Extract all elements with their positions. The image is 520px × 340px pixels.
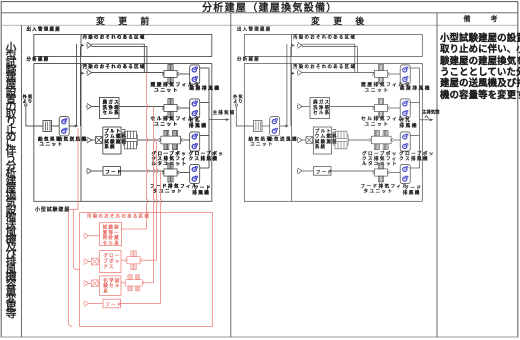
small test building box (red) bbox=[80, 213, 213, 327]
red riser B up to row 3 bbox=[156, 140, 158, 260]
red branch at 209.5 bbox=[69, 209, 78, 211]
chevron row1 bbox=[87, 70, 92, 76]
red filter unit row B bbox=[125, 251, 142, 270]
building box 2 (analysis building) bbox=[34, 64, 212, 202]
box: hood フード bbox=[103, 167, 121, 176]
filter unit: glove box exhaust (double) bbox=[159, 131, 183, 150]
svg-text:セル系: セル系 bbox=[103, 240, 120, 246]
row D: hood (red) bbox=[84, 301, 89, 307]
fan: hood exhaust bbox=[190, 164, 200, 183]
fan: cell exhaust bbox=[190, 99, 200, 118]
building box 1 (entry control) bbox=[34, 34, 212, 56]
arrow: supply into box1 bbox=[81, 44, 85, 47]
svg-text:分析建屋（建屋換気設備）: 分析建屋（建屋換気設備） bbox=[202, 1, 338, 14]
row B: glove box bbox=[84, 259, 89, 265]
wire: box1 exhaust duct pair to row 1 bbox=[92, 44, 147, 72]
svg-text:変更後: 変更後 bbox=[311, 15, 378, 26]
row A: test equipment temporary storage cell bbox=[84, 233, 89, 239]
wire bbox=[179, 73, 190, 75]
box: waste gas scrubber cell system bbox=[100, 98, 120, 119]
red supply line B curving into box bbox=[73, 210, 79, 270]
wire: outside air to supply filter bbox=[26, 106, 43, 126]
title row line bbox=[1, 12, 518, 14]
svg-text:へ: へ bbox=[425, 115, 430, 120]
red supply line A down left side, curving into bottom bbox=[69, 210, 73, 327]
svg-text:変更前: 変更前 bbox=[96, 15, 163, 26]
wire row A to riser bbox=[122, 228, 147, 230]
arrow: supply into box2 bbox=[81, 72, 85, 75]
bottom table line bbox=[1, 336, 518, 338]
svg-text:主排気筒: 主排気筒 bbox=[213, 109, 236, 116]
red riser A up to row 1 bbox=[147, 73, 149, 229]
svg-text:等: 等 bbox=[6, 306, 17, 320]
supply riser duct pair bbox=[76, 44, 80, 126]
filter unit: hood exhaust bbox=[162, 163, 179, 182]
contamination area partition line in box 2 bbox=[80, 64, 82, 202]
contamination area partition line in box 1 bbox=[80, 34, 82, 56]
node: outside air inlet bbox=[25, 104, 27, 106]
exhaust collector line bbox=[208, 68, 210, 168]
supply air filter box bbox=[43, 121, 52, 132]
mini filter pair bbox=[123, 131, 137, 149]
column divider: remarks bbox=[436, 13, 438, 337]
red double filter unit row C bbox=[124, 275, 144, 291]
red riser C up to row 2 bbox=[153, 107, 155, 283]
red riser D up to row 4 bbox=[160, 171, 162, 304]
remarks text bbox=[440, 32, 520, 100]
damper xbox bbox=[96, 137, 103, 144]
wire to collector bbox=[200, 67, 209, 69]
box: plutonium fuel test facility system bbox=[103, 127, 121, 154]
row C: chemical test cell bbox=[84, 280, 89, 286]
fan: building exhaust bbox=[190, 65, 200, 84]
filter unit: building exhaust bbox=[162, 65, 179, 84]
svg-text:フード: フード bbox=[105, 302, 122, 307]
header row line bbox=[1, 24, 518, 26]
fan: glove box exhaust bbox=[190, 132, 200, 151]
svg-text:備考: 備考 bbox=[464, 14, 518, 23]
stack outlet arrow (right) bbox=[420, 118, 434, 121]
wire + arrow into supply riser bbox=[69, 125, 74, 127]
svg-text:小型試験建屋: 小型試験建屋 bbox=[35, 206, 70, 213]
wire bbox=[52, 125, 60, 127]
red supply riser from supply duct junction bbox=[77, 128, 79, 210]
intake chevron in box 1 bbox=[87, 42, 92, 48]
wire row1 bbox=[92, 72, 164, 74]
svg-text:ブボッ: ブボッ bbox=[103, 257, 120, 263]
filter unit: cell exhaust bbox=[162, 99, 179, 118]
vertical caption: change summary (one char per line) bbox=[6, 41, 17, 320]
svg-text:汚染のおそれのある区域: 汚染のおそれのある区域 bbox=[87, 212, 150, 219]
svg-text:系: 系 bbox=[103, 288, 109, 294]
stack outlet arrow (left) bbox=[209, 118, 229, 121]
svg-text:クス: クス bbox=[103, 264, 114, 270]
column divider: before / after bbox=[230, 13, 232, 337]
supply fan unit (blower) bbox=[59, 117, 69, 136]
column divider: vertical-caption column bbox=[21, 25, 23, 337]
